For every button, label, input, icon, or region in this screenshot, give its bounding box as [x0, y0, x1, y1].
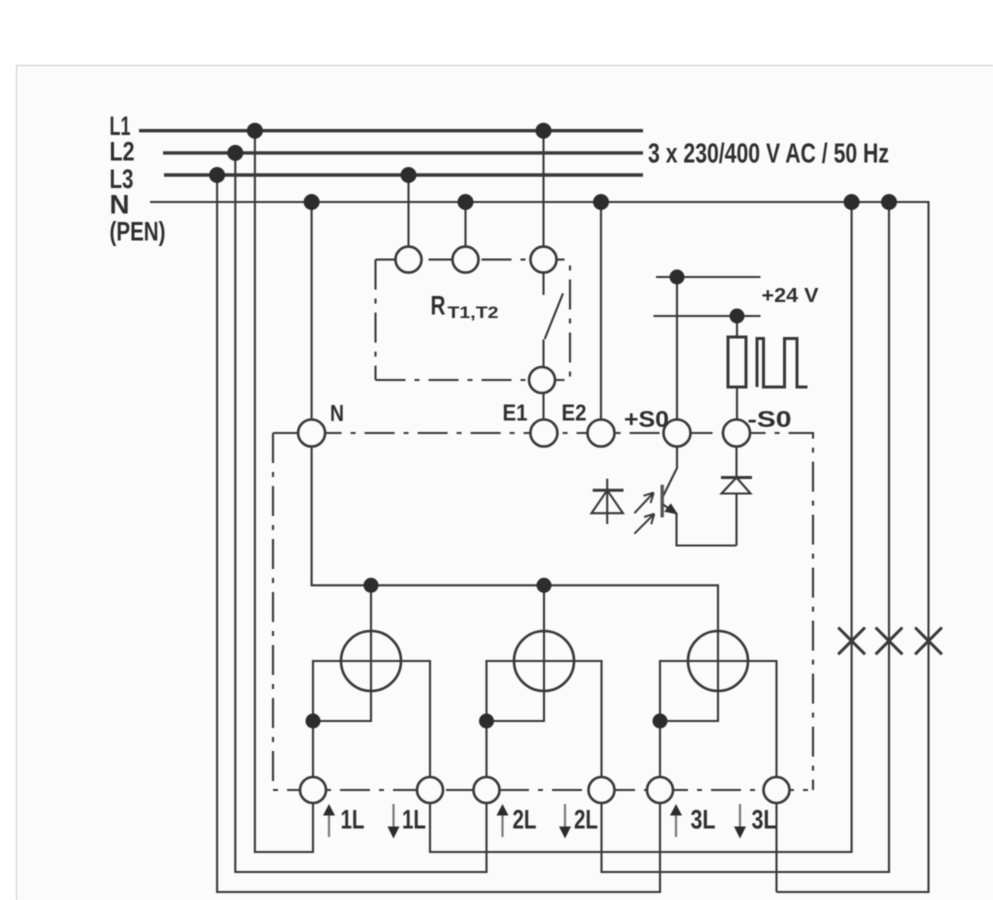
wire L2 drop to terminal 2L-in — [235, 153, 486, 872]
svg-text:3L: 3L — [691, 805, 716, 835]
node tap element 3 — [653, 714, 668, 729]
measuring element 3 circle — [688, 631, 748, 691]
measuring element 2 current bar — [487, 661, 602, 777]
svg-text:2L: 2L — [513, 805, 537, 835]
node L1-relay tap — [536, 123, 552, 139]
measuring element 1 current bar — [313, 661, 430, 777]
svg-text:-S0: -S0 — [748, 406, 792, 432]
wire N bus to terminal N — [311, 202, 313, 420]
terminal arrow 2L in — [497, 804, 509, 837]
wire N bus to terminal E2 — [600, 202, 602, 420]
wire L1 drop to terminal 1L-in — [255, 131, 313, 852]
terminal arrow 3L in — [670, 804, 682, 837]
node N to terminal N — [304, 194, 320, 210]
terminal arrow 2L out — [559, 804, 571, 839]
relay switch contact D — [529, 367, 555, 393]
svg-text:(PEN): (PEN) — [110, 217, 166, 247]
resistor (pulse load) — [728, 337, 746, 387]
svg-text:3L: 3L — [752, 805, 777, 835]
node +24V stub2 — [730, 309, 745, 324]
pulse waveform symbol — [757, 339, 808, 388]
terminal 3L in — [647, 777, 673, 803]
svg-text:+24 V: +24 V — [762, 285, 820, 307]
phototransistor base bar — [661, 485, 664, 518]
node N relay tap — [458, 194, 474, 210]
terminal circles: relay row — [298, 247, 789, 803]
+24V supply stub line 1 — [656, 276, 761, 278]
wire +S0 riser — [676, 277, 678, 420]
wire +S0 to phototransistor collector — [663, 447, 677, 497]
node L3-relay tap — [401, 167, 417, 183]
voltage coil feed measuring element 2 — [487, 585, 545, 721]
switch lower wire — [542, 340, 544, 368]
wire L3 feed to tariff relay terminal — [407, 175, 409, 247]
node N rail element 1 — [364, 578, 379, 593]
svg-text:R: R — [431, 291, 446, 321]
svg-text:+S0: +S0 — [624, 406, 669, 432]
terminal E2 — [588, 420, 615, 447]
terminal N — [298, 420, 325, 447]
bus N (PEN) with right-side drop to bottom — [150, 202, 929, 892]
phototransistor emitter with arrow — [663, 503, 737, 545]
measuring element 2 circle — [514, 631, 574, 691]
light arrows — [634, 493, 654, 534]
node L1 drop — [247, 123, 263, 139]
terminal 2L in — [474, 777, 500, 803]
node N to E2 — [593, 194, 609, 210]
node tap element 1 — [306, 714, 321, 729]
wire terminal N down to internal N rail — [312, 447, 718, 722]
crossed-out outgoing line marks — [838, 628, 942, 655]
switch upper fixed contact wire — [542, 273, 544, 295]
terminal 1L out — [417, 777, 443, 803]
node N riser 2 — [881, 194, 897, 210]
wire 1L-out to right riser — [430, 202, 852, 852]
wire L3 drop to terminal 3L-in — [217, 175, 660, 892]
node L2 drop — [227, 145, 243, 161]
svg-text:N: N — [330, 400, 344, 426]
wire 2L-out to right riser — [602, 202, 890, 872]
diode on -S0 branch — [721, 447, 752, 546]
svg-text:2L: 2L — [574, 805, 598, 835]
terminal 1L in — [300, 777, 326, 803]
bus L1 — [139, 129, 643, 132]
terminal arrow 1L out — [388, 804, 400, 839]
wire resistor to terminal -S0 — [736, 387, 738, 420]
node L3 drop — [209, 167, 225, 183]
wire switch contact to terminal E1 — [542, 393, 544, 420]
svg-text:E2: E2 — [562, 400, 587, 426]
svg-text:3 x 230/400 V AC / 50 Hz: 3 x 230/400 V AC / 50 Hz — [648, 138, 889, 169]
relay terminal C — [531, 247, 557, 273]
bus L3 — [164, 173, 643, 176]
svg-text:T1,T2: T1,T2 — [448, 303, 499, 322]
terminal arrows: 1L in — [323, 804, 335, 837]
wire N feed to tariff relay terminal — [464, 202, 466, 247]
solid stub from terminal N to box corner — [273, 432, 301, 434]
measuring element 1 circle — [341, 631, 401, 691]
terminal +S0 — [664, 420, 691, 447]
voltage coil feed measuring element 1 — [313, 585, 371, 721]
measuring element 3 current bar — [660, 661, 777, 777]
relay terminal A — [396, 247, 422, 273]
node tap element 2 — [479, 714, 494, 729]
node N riser 1 — [844, 194, 860, 210]
svg-text:E1: E1 — [503, 400, 528, 426]
terminal 3L out — [764, 777, 790, 803]
switch blade — [545, 293, 563, 339]
wire 3L-out to bottom run — [775, 803, 777, 892]
meter box dash-dot outline: terminal row, left, bottom, right — [273, 433, 813, 790]
svg-text:N: N — [110, 190, 130, 220]
wire stub2 to resistor — [736, 316, 738, 337]
terminal arrow 3L out — [734, 804, 746, 839]
tariff relay box RT1,T2 dash-dot outline — [376, 260, 571, 380]
optocoupler LED — [592, 479, 624, 524]
+24V supply stub line 2 — [654, 315, 761, 317]
svg-text:1L: 1L — [402, 805, 426, 835]
svg-text:1L: 1L — [341, 805, 365, 835]
node +24V stub1 — [670, 270, 685, 285]
wire L1 feed to tariff relay switch — [542, 131, 544, 247]
relay terminal B — [453, 247, 479, 273]
node N rail element 2 — [537, 578, 552, 593]
bus L2 — [163, 151, 643, 154]
terminal E1 — [530, 420, 557, 447]
terminal -S0 — [723, 420, 750, 447]
svg-text:L2: L2 — [110, 137, 135, 167]
terminal 2L out — [589, 777, 615, 803]
